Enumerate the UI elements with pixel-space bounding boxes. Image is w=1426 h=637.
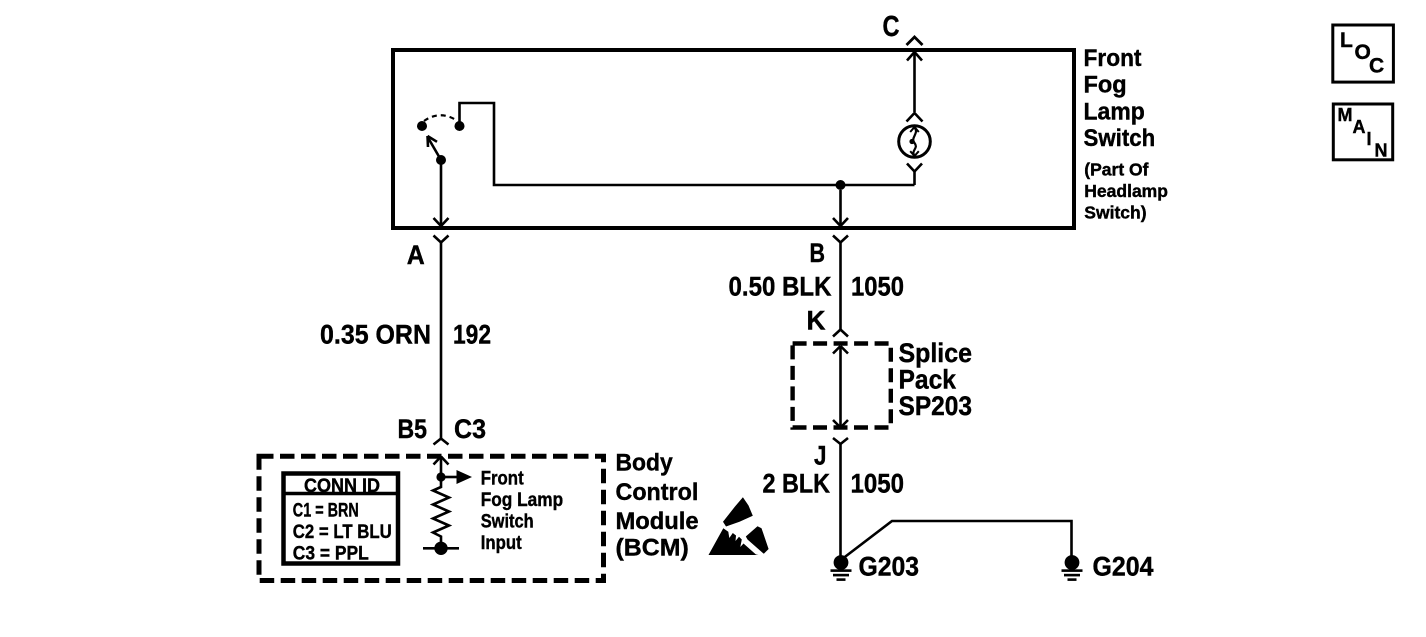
svg-text:0.35 ORN: 0.35 ORN <box>320 320 431 350</box>
svg-text:192: 192 <box>453 320 491 350</box>
svg-text:A: A <box>407 240 425 270</box>
svg-text:(BCM): (BCM) <box>616 535 689 562</box>
svg-text:J: J <box>814 441 827 471</box>
svg-text:SP203: SP203 <box>899 391 973 421</box>
svg-text:G204: G204 <box>1093 552 1154 582</box>
svg-text:Pack: Pack <box>899 365 957 395</box>
svg-text:Module: Module <box>616 508 699 535</box>
svg-text:L: L <box>1340 29 1353 52</box>
svg-text:B: B <box>810 238 826 268</box>
svg-text:Front: Front <box>481 468 524 490</box>
svg-text:C1 = BRN: C1 = BRN <box>293 500 359 522</box>
svg-text:Switch: Switch <box>481 511 534 533</box>
svg-text:B5: B5 <box>398 414 428 444</box>
svg-text:Fog Lamp: Fog Lamp <box>481 489 564 511</box>
svg-text:Switch): Switch) <box>1084 203 1146 223</box>
svg-text:Switch: Switch <box>1084 125 1156 152</box>
svg-text:Body: Body <box>616 450 674 477</box>
svg-text:1050: 1050 <box>851 469 905 499</box>
svg-text:0.50 BLK: 0.50 BLK <box>729 272 832 302</box>
svg-text:2 BLK: 2 BLK <box>763 469 831 499</box>
svg-text:C: C <box>883 11 900 43</box>
svg-text:CONN ID: CONN ID <box>304 475 380 497</box>
svg-text:C: C <box>1369 55 1384 78</box>
svg-text:Input: Input <box>481 532 522 554</box>
svg-text:C3: C3 <box>454 414 486 444</box>
svg-text:Lamp: Lamp <box>1084 98 1145 125</box>
svg-text:Control: Control <box>616 479 699 506</box>
svg-text:I: I <box>1367 129 1372 149</box>
svg-text:A: A <box>1353 117 1366 137</box>
svg-text:C2 = LT BLU: C2 = LT BLU <box>293 521 392 543</box>
svg-text:Fog: Fog <box>1084 72 1127 99</box>
svg-text:N: N <box>1375 141 1388 161</box>
svg-text:M: M <box>1338 105 1353 125</box>
svg-text:G203: G203 <box>859 552 920 582</box>
svg-text:1050: 1050 <box>851 272 904 302</box>
svg-text:Splice: Splice <box>899 338 973 368</box>
svg-text:(Part Of: (Part Of <box>1084 160 1148 180</box>
svg-text:Headlamp: Headlamp <box>1084 181 1168 201</box>
svg-text:C3 = PPL: C3 = PPL <box>293 543 369 565</box>
svg-text:Front: Front <box>1084 45 1142 72</box>
svg-text:K: K <box>807 305 826 335</box>
